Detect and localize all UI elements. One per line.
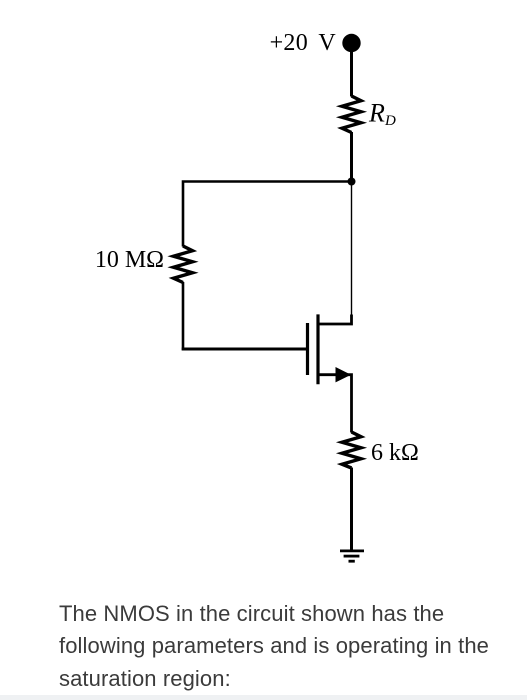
- ground: [340, 551, 364, 561]
- svg-text:6 kΩ: 6 kΩ: [371, 440, 419, 466]
- wire gate lead horizontal: [182, 348, 306, 351]
- svg-text:+20 V: +20 V: [270, 30, 337, 56]
- transistor Q1 drain lead: [318, 315, 352, 325]
- svg-text:R: R: [368, 99, 385, 128]
- transistor Q1 source lead: [318, 375, 352, 433]
- svg-text:D: D: [384, 113, 396, 129]
- bottom divider bar: [0, 695, 527, 700]
- resistor RD: [342, 96, 361, 133]
- resistor 10M: [174, 246, 193, 283]
- caption text: [59, 598, 499, 696]
- transistor Q1 gate bar: [306, 323, 309, 375]
- svg-text:10 MΩ: 10 MΩ: [95, 247, 164, 273]
- wire supply to RD: [350, 51, 353, 97]
- transistor Q1 source arrow: [336, 367, 352, 382]
- wire 6k to ground: [350, 468, 353, 552]
- node +20V supply terminal dot: [342, 34, 360, 52]
- wire RD to junction: [350, 132, 353, 181]
- transistor Q1 channel bar: [316, 314, 319, 384]
- node junction drain/gate-feedback: [348, 178, 356, 186]
- wire 10M to gate corner: [182, 282, 185, 350]
- wire thin drain net from junction: [351, 183, 353, 316]
- resistor 6k: [342, 432, 361, 468]
- wire junction left and down to 10M resistor: [183, 182, 352, 247]
